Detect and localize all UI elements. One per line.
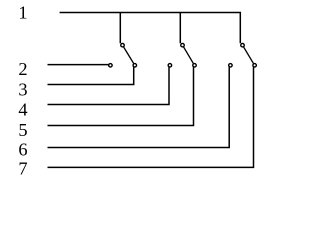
wire net 5 from S2 throw contact bbox=[48, 67, 194, 125]
svg-text:7: 7 bbox=[18, 159, 27, 179]
switch S3 arm bbox=[244, 47, 254, 64]
switch S2 common pivot contact bbox=[181, 43, 185, 47]
switch S1 arm bbox=[124, 47, 134, 64]
svg-text:6: 6 bbox=[18, 140, 27, 160]
svg-text:1: 1 bbox=[18, 3, 27, 23]
switch S2 arm bbox=[184, 47, 194, 64]
wire net 4 from S2 fixed contact bbox=[48, 67, 170, 104]
switch S1 common pivot contact bbox=[121, 43, 125, 47]
wire net 1 drop to switch S1 bbox=[119, 13, 121, 44]
wire net 1 drop to switch S2 bbox=[179, 13, 181, 44]
switch S3 fixed contact on net 6 bbox=[229, 64, 233, 68]
wire net 3 from S1 throw contact bbox=[48, 67, 134, 84]
svg-text:3: 3 bbox=[18, 80, 27, 100]
switch S3 throw contact to net 7 bbox=[253, 64, 257, 68]
wire net 6 from S3 fixed contact bbox=[48, 67, 230, 147]
switch S1 fixed contact on net 2 bbox=[109, 64, 113, 68]
switch S2 throw contact to net 5 bbox=[193, 64, 197, 68]
wire net 1 top bus with right corner drop to switch S3 bbox=[60, 13, 241, 44]
wire net 7 from S3 throw contact bbox=[48, 67, 254, 167]
svg-text:4: 4 bbox=[18, 99, 27, 119]
wire net 2 bbox=[48, 64, 109, 66]
switch S3 common pivot contact bbox=[241, 43, 245, 47]
svg-text:5: 5 bbox=[18, 120, 27, 140]
svg-text:2: 2 bbox=[18, 59, 27, 79]
switch S1 throw contact to net 3 bbox=[133, 64, 137, 68]
switch S2 fixed contact on net 4 bbox=[168, 64, 172, 68]
